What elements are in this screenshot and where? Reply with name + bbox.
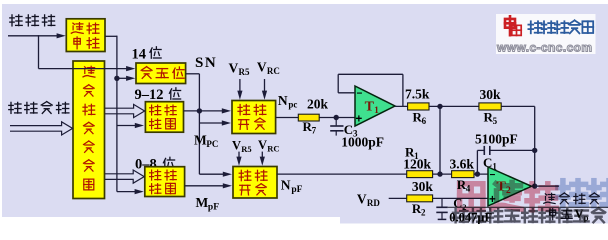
svg-text:RC: RC [267,144,279,154]
svg-text:PC: PC [206,139,218,149]
bus arrow: register to coarse counter [105,104,145,117]
junction: C1 to output rail [532,148,537,153]
op-amp T1 [355,86,395,126]
wire: address line into send circuit [8,35,59,37]
label: output 速度指令 电压 [544,193,600,204]
wire: load tap to sign box [117,77,131,79]
svg-text:−: − [490,170,496,181]
block: 送数电路 send-data circuit [66,19,105,52]
wire: T1 feedback top [338,73,403,75]
bus arrow: register to fine counter [105,170,144,183]
watermark: c-cnc logo box [496,14,596,54]
resistor R2 30k [407,195,433,202]
wire: send-circuit output to load line [105,35,117,37]
svg-text:120k: 120k [403,157,431,172]
svg-text:V: V [258,138,267,152]
capacitor C1 [483,146,485,155]
junction: load line / sign load [114,76,119,81]
block: 符号位 sign bit [136,63,186,84]
wire: C1 feedback left leg [476,150,478,174]
svg-text:www.c-cnc.com: www.c-cnc.com [496,40,592,54]
svg-text:7.5k: 7.5k [405,87,430,102]
svg-text:T: T [365,100,375,115]
junction: SN and Mpc line [197,108,202,113]
watermark: edatop blue [558,181,608,206]
svg-text:V: V [357,192,367,207]
svg-text:M: M [194,133,207,148]
svg-text:+: + [356,114,363,126]
capacitor C2 with ground [441,198,443,206]
op-amp T2 [488,167,532,206]
resistor R7 20k [298,114,319,121]
resistor R1 120k [407,171,433,178]
svg-text:pF: pF [291,185,302,195]
wire: NpF line through R1 and R4 to T2 [277,173,488,175]
junction: R1/R4 node [437,171,442,176]
svg-text:R5: R5 [238,67,249,77]
wire: load tap to coarse counter [117,125,137,127]
svg-text:V: V [229,61,239,76]
junction: T1 input node [334,115,339,120]
wire: SN branch into analog switch 1 [199,122,225,124]
wire: load tap to fine counter [117,191,137,193]
wire: load vertical line [116,36,118,192]
block: 粗计数器 coarse counter [145,102,183,133]
wire: fine counter output MpF [185,185,226,187]
svg-text:pc: pc [288,100,297,110]
resistor R6 7.5k [408,103,429,110]
block: 模拟开关 analog switch 1 [232,101,276,134]
svg-text:pF: pF [208,203,219,213]
svg-text:−: − [357,89,363,100]
svg-text:6: 6 [422,116,427,126]
wire: sign output SN [186,73,200,75]
watermark: slogan gray [453,208,605,222]
svg-text:7: 7 [312,126,317,136]
svg-text:3.6k: 3.6k [450,157,475,172]
svg-text:14: 14 [132,47,147,63]
svg-text:V: V [232,139,241,153]
svg-text:5100pF: 5100pF [475,132,518,147]
watermark: edatop red [460,182,557,209]
svg-text:1: 1 [374,106,379,116]
svg-text:RC: RC [267,66,280,76]
svg-text:20k: 20k [307,97,329,112]
net label: address bus 地址线 [10,15,55,26]
wire: SN branch into analog switch 2 [199,173,226,175]
wire: SN vertical [198,74,200,174]
capacitor C3 [335,118,337,126]
wire: output line [532,185,560,187]
junction: T2 output node [532,183,537,188]
svg-text:V: V [575,207,584,221]
svg-text:M: M [196,195,209,210]
wire: R5 to right rail [534,106,536,186]
wire: VR5 arrow into switch 2 [238,152,240,160]
wire: VRC arrow into switch 2 [261,152,263,160]
block: 精计数器 fine counter [145,167,185,197]
svg-text:30k: 30k [412,179,434,194]
wire: T1 output [395,105,535,107]
wire: address line branch down to register [38,35,40,68]
svg-text:V: V [257,60,267,75]
svg-text:N: N [281,178,291,193]
wire: VRD through R2 to T2 + [389,197,488,199]
svg-text:5: 5 [493,116,498,126]
resistor R4 3.6k [452,171,474,178]
svg-text:9–12: 9–12 [135,87,164,103]
net label: data bus 数据总线 [9,102,69,114]
junction: R6/R5 node [437,104,442,109]
block: 速度指令寄存器 speed command register [73,61,105,199]
svg-text:2: 2 [421,208,426,218]
svg-text:RD: RD [367,198,380,208]
wire: Npc line to R7 and T1 [276,117,355,119]
resistor R5 30k [479,103,501,110]
wire: VR5 arrow into switch 1 [239,79,241,93]
block: 模拟开关 analog switch 2 [233,167,277,199]
junction: T2 inverting node [475,171,480,176]
svg-text:30k: 30k [480,87,502,102]
svg-text:1000pF: 1000pF [341,135,384,150]
svg-text:N: N [278,93,288,108]
bus arrow: data bus into register [10,122,73,135]
wire: node down to R1 line [439,106,441,174]
wire: VRC arrow into switch 1 [264,79,266,93]
wire: bit-14 line to sign bit box [39,68,132,70]
svg-text:R5: R5 [241,144,251,154]
underline artifact [448,206,608,208]
wire: coarse counter output Mpc [184,110,226,112]
svg-text:SN: SN [195,55,217,71]
